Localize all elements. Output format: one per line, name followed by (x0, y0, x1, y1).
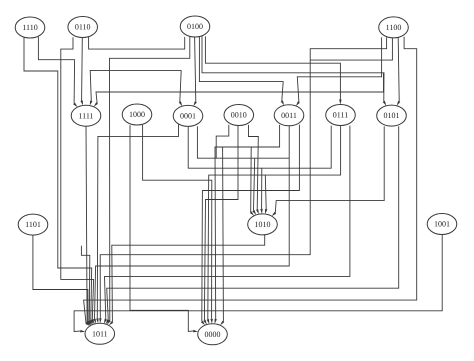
edge 0100->0111 leg5 (205, 36, 340, 99)
edge 1100->1011 leg5 via right side (84, 37, 417, 323)
edge ->1010 drop ch175 (264, 175, 267, 209)
svg-text:1111: 1111 (78, 111, 93, 120)
edge 0110->1011 left leg (61, 37, 94, 319)
svg-text:0010: 0010 (231, 111, 247, 120)
edge ->1010 drop ch147 (250, 147, 253, 212)
edge ->1111 fourth arrow ch92 (96, 73, 384, 103)
edge 1111->1011 (86, 126, 87, 322)
node 1010 (248, 214, 278, 235)
svg-text:0111: 0111 (333, 111, 348, 120)
edge ->0001 left arrow ch70 (180, 70, 181, 102)
edge 1100->1011 leg2 via shaft (100, 37, 386, 318)
edge 0110->1111 center leg (81, 38, 84, 101)
node 0101 (377, 105, 407, 126)
node 0011 (274, 105, 304, 126)
edge 1010->1011 (112, 235, 265, 322)
edge 0001->1011 legL (97, 125, 178, 319)
edge 1100 leg3 joins shaft (310, 37, 392, 60)
node 1110 (15, 17, 45, 38)
edge 0001->0010 legR S edge (197, 125, 228, 158)
edge 0011->0000 legL via ch147 (215, 125, 280, 319)
edge 1001->1011 west full crossing (74, 235, 442, 332)
edge 1110->1111 right leg (38, 37, 74, 104)
edge 0100->0101 leg5b via ch72 (202, 36, 384, 102)
svg-text:0001: 0001 (180, 112, 196, 121)
edge ->1011 f1 elbow col (81, 246, 89, 321)
edge 1000->0000 legR (143, 125, 212, 319)
svg-text:1000: 1000 (129, 110, 145, 119)
edge 0101->1011 legR (107, 126, 399, 320)
edge 0110--0100 flat edge (89, 37, 185, 49)
svg-text:1101: 1101 (25, 220, 41, 229)
edge ch158 right extension (216, 157, 289, 159)
edge 0010->0000 legC (204, 125, 238, 320)
svg-text:1011: 1011 (92, 329, 108, 338)
svg-text:1010: 1010 (255, 220, 271, 229)
edge ->1010 drop ch158 (254, 158, 255, 211)
svg-text:1110: 1110 (22, 23, 37, 32)
edge 1101->1011 (33, 235, 88, 321)
node 1001 (427, 214, 457, 235)
node 0111 (326, 105, 356, 126)
svg-text:0011: 0011 (281, 111, 297, 120)
edge ->1111 third arrow ch70 (90, 70, 181, 100)
node 1101 (18, 214, 48, 235)
edge 1100->0011 leg1 (297, 37, 381, 102)
edge 0101->1010 east legL (275, 126, 384, 213)
edge 0001->1010 legC (188, 126, 262, 209)
edge 1000->0000 west legL (130, 125, 193, 331)
node 0100 (180, 16, 210, 37)
svg-text:0100: 0100 (187, 22, 203, 31)
edge 1100->0101 leg4 (398, 37, 399, 101)
node 0001 (173, 105, 203, 126)
edge 0111->0000 legC (208, 126, 341, 320)
node 1100 (379, 17, 409, 38)
edge 1110->1011 left leg (24, 37, 92, 321)
svg-text:1001: 1001 (434, 220, 450, 229)
node 1011 (85, 323, 115, 344)
node 0110 (68, 17, 98, 38)
node 0010 (224, 105, 254, 126)
node 1111 (71, 105, 101, 126)
node 0000 (198, 324, 228, 345)
edge 0010->1010 legR (249, 125, 259, 210)
edge ->0000 drop2 from ch147 (222, 147, 225, 322)
edge 0100->1011 leg2 (110, 37, 190, 321)
edge 0011->0000 legR via ch190 (202, 125, 300, 322)
edge 0111->1011 legR (105, 126, 350, 320)
edge 0111--ch168 legL (262, 126, 331, 169)
edge 0100->0001 leg3 (195, 37, 196, 102)
node 1000 (122, 104, 152, 125)
svg-text:0101: 0101 (384, 111, 400, 120)
svg-text:0110: 0110 (75, 23, 91, 32)
edge 0011->1011 legC via ch266 (95, 125, 290, 319)
svg-text:1100: 1100 (386, 23, 402, 32)
edge 0100->0011 leg4 (199, 37, 283, 101)
svg-text:0000: 0000 (205, 330, 221, 339)
